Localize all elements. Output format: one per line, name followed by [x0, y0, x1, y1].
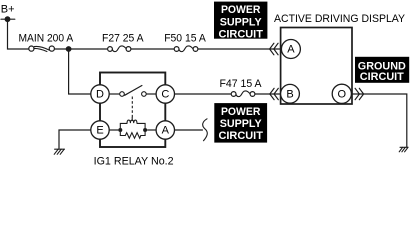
svg-text:MAIN 200 A: MAIN 200 A [19, 33, 74, 45]
relay pin A [156, 121, 174, 139]
wire F47 to display pin B [255, 93, 281, 95]
wire coil to A [147, 129, 156, 131]
svg-text:POWER: POWER [221, 4, 261, 16]
wire C to F47 [175, 93, 232, 95]
svg-text:B+: B+ [1, 3, 15, 15]
svg-text:SUPPLY: SUPPLY [220, 118, 263, 130]
relay switch left contact [120, 92, 125, 97]
svg-text:CIRCUIT: CIRCUIT [218, 130, 263, 142]
wire contact to C [146, 93, 156, 95]
display pin B [281, 84, 300, 103]
relay pin D [91, 85, 109, 103]
svg-text:D: D [96, 89, 104, 101]
left ground symbol [54, 149, 64, 154]
svg-text:B: B [286, 88, 293, 100]
svg-text:POWER: POWER [221, 106, 261, 118]
svg-text:CIRCUIT: CIRCUIT [218, 28, 263, 40]
connector chevrons at pin O [355, 88, 364, 99]
relay pin E [91, 121, 109, 139]
wire junction down to relay pin D [69, 49, 91, 94]
wire MAIN to F27 [55, 48, 108, 50]
wire B+ down to main bus [8, 19, 29, 49]
fuse F27 25 A [108, 46, 131, 52]
wire F27 to F50 [131, 48, 174, 50]
svg-text:SUPPLY: SUPPLY [220, 16, 263, 28]
svg-text:ACTIVE DRIVING DISPLAY: ACTIVE DRIVING DISPLAY [274, 13, 406, 25]
relay coil resistor (bottom branch) [120, 132, 145, 138]
svg-text:CIRCUIT: CIRCUIT [360, 71, 404, 83]
wire E to coil [109, 129, 118, 131]
fusible link MAIN 200 A [29, 46, 55, 52]
relay pin C [156, 85, 174, 103]
ground circuit box [355, 57, 409, 83]
wire O to right ground [352, 94, 406, 147]
wire continuation squiggle [203, 119, 208, 141]
svg-text:F50 15 A: F50 15 A [164, 33, 206, 45]
junction node on main bus [66, 46, 72, 52]
svg-text:E: E [96, 125, 103, 137]
relay switch blade [125, 86, 142, 96]
coil junction dot right [143, 128, 147, 132]
right ground symbol [399, 147, 408, 152]
fuse F50 15 A [174, 46, 198, 52]
wire relay A to continuation [175, 129, 203, 131]
svg-text:A: A [287, 44, 295, 56]
dashed actuating link [131, 97, 133, 118]
wire E to left ground [59, 130, 91, 149]
fuse F47 15 A [231, 91, 255, 97]
wire D to switch contact [109, 93, 119, 95]
connector chevrons at display pin B [270, 88, 279, 99]
svg-text:F47 15 A: F47 15 A [220, 78, 263, 90]
power supply circuit box (bottom) [214, 103, 267, 143]
coil junction dot left [118, 128, 122, 132]
svg-text:F27 25 A: F27 25 A [102, 33, 144, 45]
relay coil inductor (top branch) [120, 117, 145, 128]
relay switch right contact [142, 92, 147, 97]
svg-text:O: O [338, 88, 347, 100]
display pin O [332, 84, 351, 103]
svg-text:C: C [161, 89, 169, 101]
svg-text:A: A [162, 125, 170, 137]
node B+ terminal [1, 16, 15, 22]
relay box IG1 RELAY No.2 [100, 73, 165, 148]
power supply circuit box (top) [214, 2, 267, 41]
svg-text:IG1 RELAY No.2: IG1 RELAY No.2 [94, 155, 174, 167]
wire F50 to display terminal A [198, 48, 281, 50]
active driving display box [281, 28, 352, 105]
connector chevrons at display pin A [270, 43, 279, 55]
display pin A [281, 40, 300, 59]
